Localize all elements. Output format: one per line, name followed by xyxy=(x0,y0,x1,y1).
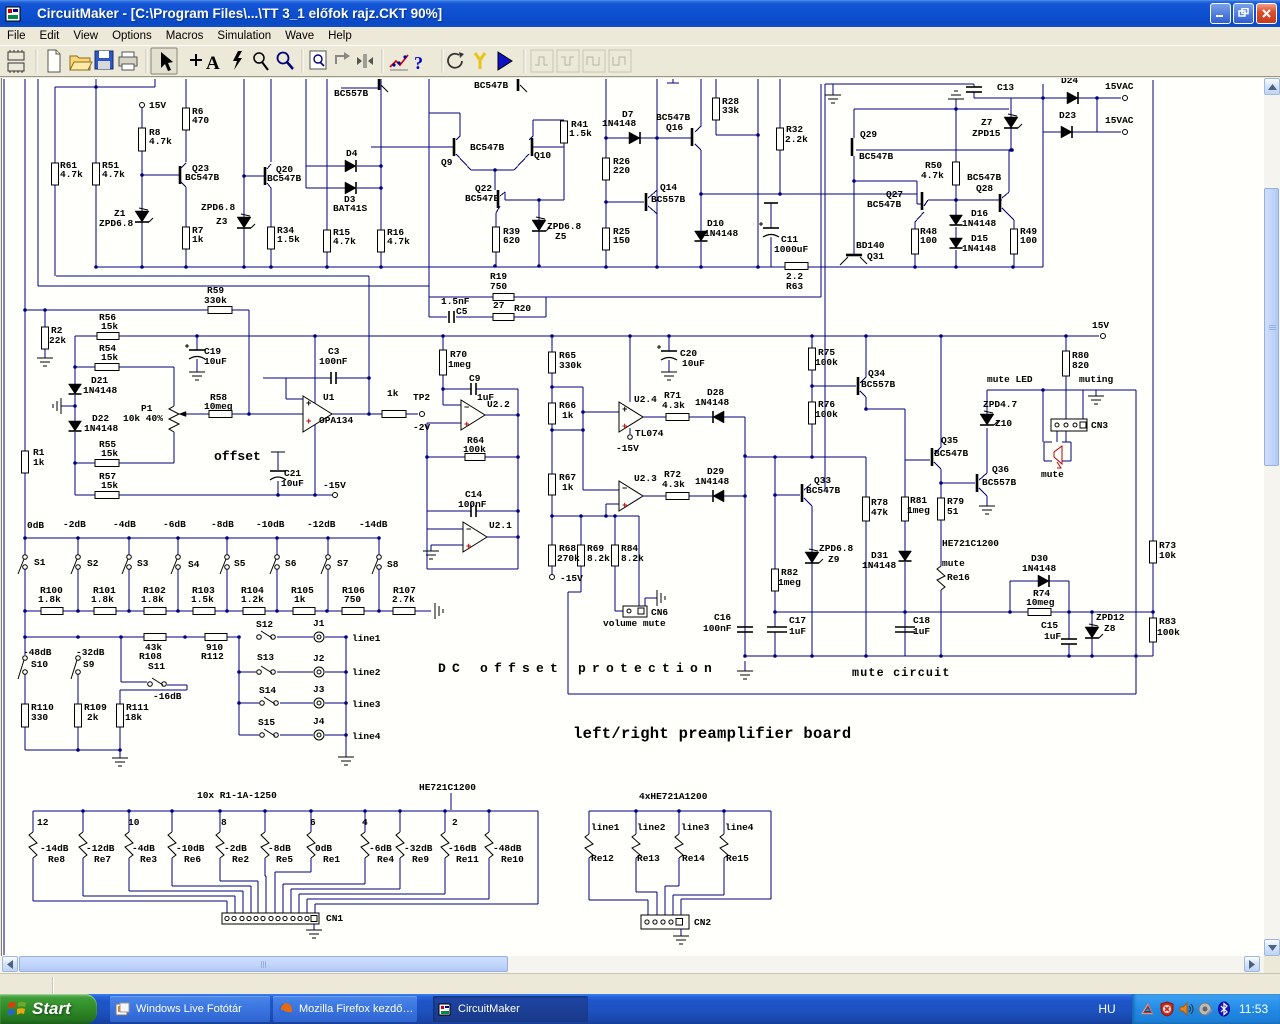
resistor R56 xyxy=(97,333,119,340)
svg-text:R63: R63 xyxy=(786,281,803,292)
svg-text:1k: 1k xyxy=(562,482,574,493)
svg-text:-12dB: -12dB xyxy=(307,519,336,530)
Q16 emitter xyxy=(695,144,701,150)
resistor R67 xyxy=(549,474,556,495)
S2 top xyxy=(77,538,79,555)
op-amp U2.2 xyxy=(461,400,485,430)
switch S2 xyxy=(76,555,81,560)
svg-text:line3: line3 xyxy=(681,822,710,833)
junction xyxy=(344,635,348,639)
wire xyxy=(655,190,657,192)
vertical bus x24 xyxy=(24,79,26,451)
R61 column xyxy=(54,87,56,163)
wire xyxy=(986,496,988,506)
svg-text:R20: R20 xyxy=(514,303,531,314)
junction xyxy=(613,514,617,518)
junction xyxy=(1134,654,1138,658)
svg-text:mute: mute xyxy=(1041,469,1064,480)
S1 bottom xyxy=(24,569,26,611)
S7 top xyxy=(327,538,329,555)
resistor R65 xyxy=(549,352,556,373)
wire xyxy=(257,881,259,913)
wire xyxy=(916,194,918,204)
wire xyxy=(494,170,496,190)
x xyxy=(904,457,906,460)
svg-text:S13: S13 xyxy=(257,652,274,663)
wire xyxy=(505,199,564,201)
svg-text:1.5k: 1.5k xyxy=(569,128,592,139)
wire xyxy=(695,126,701,132)
wire xyxy=(307,898,489,900)
resistor R51 xyxy=(93,163,100,185)
S11 left xyxy=(120,637,122,682)
junction xyxy=(903,610,907,614)
svg-text:15k: 15k xyxy=(101,448,118,459)
wire xyxy=(226,901,228,913)
svg-text:4.7k: 4.7k xyxy=(921,170,944,181)
svg-text:C13: C13 xyxy=(997,82,1014,93)
diode D31 xyxy=(899,551,912,561)
ground U2.1 xyxy=(423,550,439,552)
bank1 right edge xyxy=(537,811,539,904)
svg-text:1N4148: 1N4148 xyxy=(862,560,897,571)
S4 top xyxy=(177,538,179,555)
junction xyxy=(864,654,868,658)
svg-text:ZPD12: ZPD12 xyxy=(1096,612,1125,623)
switch S8 xyxy=(377,555,382,560)
svg-text:S10: S10 xyxy=(31,659,48,670)
wire xyxy=(979,473,987,480)
svg-text:S9: S9 xyxy=(83,659,95,670)
print xyxy=(119,52,137,70)
Z3 column xyxy=(243,79,245,217)
svg-text:-32dB: -32dB xyxy=(404,843,433,854)
svg-text:C16: C16 xyxy=(714,612,731,623)
svg-text:-4dB: -4dB xyxy=(113,519,136,530)
resistor R68 xyxy=(549,545,556,566)
new xyxy=(48,50,60,72)
connector CN2 xyxy=(641,915,689,929)
junction xyxy=(237,670,241,674)
resistor R82 xyxy=(772,569,779,591)
resistor 1k xyxy=(382,411,406,418)
S5 top xyxy=(226,538,228,555)
svg-text:1k: 1k xyxy=(387,388,399,399)
U2.1 output xyxy=(487,536,518,538)
junction xyxy=(443,809,447,813)
wire xyxy=(267,183,271,188)
svg-text:A: A xyxy=(206,53,220,74)
svg-text:0dB: 0dB xyxy=(27,520,44,531)
wire xyxy=(986,428,988,473)
resistor R104 xyxy=(243,608,265,615)
resistor R106 xyxy=(342,608,364,615)
transistor Q36 xyxy=(976,474,979,492)
arrow tool (pressed) xyxy=(151,48,177,74)
resistor R71 xyxy=(666,414,689,421)
svg-text:ZPD6.8: ZPD6.8 xyxy=(819,543,854,554)
mute LED speaker xyxy=(1044,442,1071,461)
wire xyxy=(1013,220,1015,229)
svg-text:51: 51 xyxy=(947,506,959,517)
svg-text:BC547B: BC547B xyxy=(859,151,894,162)
connector J3 xyxy=(314,698,324,708)
zener Z8 xyxy=(1085,627,1099,638)
svg-text:-6dB: -6dB xyxy=(163,519,186,530)
svg-text:1N4148: 1N4148 xyxy=(602,118,637,129)
wire xyxy=(1043,97,1067,99)
wire xyxy=(128,858,130,891)
svg-text:1000uF: 1000uF xyxy=(774,244,809,255)
Q27 emitter xyxy=(915,212,924,222)
wire xyxy=(33,900,227,902)
relay Re11 wire xyxy=(444,811,446,832)
zener Z10 xyxy=(980,414,994,425)
wire xyxy=(326,252,328,267)
ground xyxy=(744,661,746,671)
svg-text:1uF: 1uF xyxy=(789,626,806,637)
resistor R7 xyxy=(183,227,190,249)
wire xyxy=(606,137,629,139)
svg-text:470: 470 xyxy=(192,115,209,126)
wire xyxy=(55,86,155,88)
wire xyxy=(495,252,497,266)
svg-text:1N4148: 1N4148 xyxy=(695,397,730,408)
wire xyxy=(429,296,493,298)
menu bar xyxy=(0,27,1280,45)
svg-text:Re1: Re1 xyxy=(323,854,340,865)
R82 column xyxy=(774,457,776,569)
wire xyxy=(82,858,84,896)
wire xyxy=(655,212,657,214)
R64 row xyxy=(427,456,465,458)
C3 row xyxy=(263,377,331,379)
wire y181 xyxy=(854,180,917,182)
ground xyxy=(338,756,354,758)
svg-text:-48dB: -48dB xyxy=(493,843,522,854)
svg-text:1meg: 1meg xyxy=(778,577,801,588)
resistor R66 xyxy=(549,403,556,424)
junction xyxy=(667,334,671,338)
junction xyxy=(581,410,585,414)
wire xyxy=(1082,390,1084,419)
junction xyxy=(493,264,497,268)
wire xyxy=(1068,581,1070,612)
svg-text:-16dB: -16dB xyxy=(153,691,182,702)
svg-text:Q29: Q29 xyxy=(860,129,877,140)
svg-text:1N4148: 1N4148 xyxy=(1022,563,1057,574)
resistor R111 xyxy=(117,704,124,727)
relay Re4 xyxy=(361,832,369,858)
wire xyxy=(917,203,921,205)
svg-text:12: 12 xyxy=(37,817,49,828)
junction xyxy=(939,481,943,485)
wire xyxy=(265,875,266,877)
svg-text:BC557B: BC557B xyxy=(861,379,896,390)
svg-text:+: + xyxy=(306,417,311,427)
ground xyxy=(37,357,53,359)
diode D4 xyxy=(345,160,356,172)
junction xyxy=(550,514,554,518)
diode D3 xyxy=(345,182,356,194)
Q34 base xyxy=(812,385,856,387)
relay Re5 wire xyxy=(264,811,266,832)
wire xyxy=(357,187,381,189)
relay xyxy=(720,834,728,858)
reset xyxy=(448,52,464,68)
R84 column xyxy=(614,516,616,545)
wire xyxy=(119,366,174,368)
wire xyxy=(770,203,772,228)
terminal 15V xyxy=(140,103,145,108)
svg-text:CN6: CN6 xyxy=(651,607,668,618)
svg-text:820: 820 xyxy=(1072,360,1089,371)
wire xyxy=(74,432,76,495)
relay Re9 wire xyxy=(399,811,401,832)
junction xyxy=(76,748,80,752)
R59 row xyxy=(25,309,208,311)
svg-text:line1: line1 xyxy=(591,822,620,833)
wire y194 xyxy=(701,193,917,195)
junction xyxy=(263,809,267,813)
wire xyxy=(196,359,198,372)
R70 column xyxy=(442,336,444,350)
svg-text:-4dB: -4dB xyxy=(132,843,155,854)
wire xyxy=(250,886,252,913)
wire y409 xyxy=(866,408,905,410)
wire xyxy=(142,174,179,176)
svg-text:S7: S7 xyxy=(337,558,349,569)
Y tool xyxy=(475,53,485,69)
capacitor C17 xyxy=(767,626,787,628)
resistor R49 xyxy=(1011,229,1018,254)
bus y750 xyxy=(25,749,120,751)
wire xyxy=(248,310,250,414)
vertical scrollbar xyxy=(1264,78,1280,956)
svg-text:muting: muting xyxy=(1079,374,1114,385)
svg-text:+: + xyxy=(622,405,627,415)
svg-text:-32dB: -32dB xyxy=(76,647,105,658)
wire xyxy=(568,591,581,593)
svg-text:-16dB: -16dB xyxy=(448,843,477,854)
diode D23 xyxy=(1061,126,1072,138)
junction xyxy=(864,334,868,338)
wire xyxy=(914,254,916,267)
vertical x757 xyxy=(757,79,759,267)
junction xyxy=(1011,265,1015,269)
capacitor C20 xyxy=(661,350,677,352)
wire xyxy=(77,727,79,750)
junction xyxy=(140,265,144,269)
svg-text:4xHE721A1200: 4xHE721A1200 xyxy=(639,791,708,802)
wire xyxy=(314,904,316,913)
svg-text:4.7k: 4.7k xyxy=(333,236,356,247)
Q28 emitter xyxy=(1002,208,1014,220)
junction xyxy=(550,334,554,338)
wire xyxy=(427,422,461,424)
resistor R81 xyxy=(902,497,909,521)
svg-text:U1: U1 xyxy=(323,392,335,403)
svg-text:8.2k: 8.2k xyxy=(587,553,610,564)
transistor Q35 xyxy=(931,448,934,466)
wire xyxy=(239,734,259,736)
svg-text:CN3: CN3 xyxy=(1091,420,1108,431)
wire xyxy=(24,473,26,554)
R28 column xyxy=(715,79,717,98)
wire xyxy=(724,416,745,418)
wire xyxy=(538,231,540,266)
wire xyxy=(476,510,518,512)
ground CN1 xyxy=(313,924,315,930)
connector J1 xyxy=(314,632,324,642)
junction xyxy=(367,412,371,416)
vertical x820 xyxy=(820,84,822,297)
transistor Q20 xyxy=(264,167,267,185)
svg-text:27: 27 xyxy=(493,300,505,311)
wire xyxy=(185,130,187,162)
wire xyxy=(678,858,680,886)
svg-text:BC547B: BC547B xyxy=(806,485,841,496)
transistor Q23 xyxy=(179,166,182,184)
switch S13 xyxy=(257,670,262,675)
svg-text:-8dB: -8dB xyxy=(268,843,291,854)
svg-text:15V: 15V xyxy=(1092,320,1109,331)
diode D7 xyxy=(629,132,640,144)
svg-text:8: 8 xyxy=(221,817,227,828)
svg-text:Re12: Re12 xyxy=(591,853,614,864)
wire xyxy=(119,462,174,464)
svg-text:line4: line4 xyxy=(725,822,754,833)
bus y516 xyxy=(552,515,639,517)
wire xyxy=(615,610,623,612)
ground R107 xyxy=(434,603,436,619)
Q33 emitter xyxy=(804,498,812,506)
relay Re7 wire xyxy=(82,811,84,832)
svg-text:15V: 15V xyxy=(149,100,166,111)
wire xyxy=(811,563,813,656)
zoom xyxy=(278,53,294,70)
wire xyxy=(459,113,461,136)
resistor R109 xyxy=(75,704,82,727)
junction xyxy=(743,454,747,458)
relay xyxy=(585,834,593,858)
diode D21 xyxy=(69,384,82,394)
wire xyxy=(325,636,346,638)
bank1 bus xyxy=(33,810,538,812)
wire xyxy=(645,597,657,599)
svg-text:330: 330 xyxy=(31,712,48,723)
wire xyxy=(32,858,34,901)
junction xyxy=(242,174,246,178)
resistor R57 xyxy=(95,492,119,499)
ground C20 xyxy=(661,371,677,373)
wire xyxy=(811,424,813,457)
svg-text:Z10: Z10 xyxy=(995,418,1012,429)
svg-text:Q34: Q34 xyxy=(868,368,885,379)
relay Re1 xyxy=(307,832,315,858)
wire y276 xyxy=(56,275,369,277)
terminal 15VAC xyxy=(1123,130,1128,135)
svg-text:-15V: -15V xyxy=(323,480,346,491)
wire xyxy=(239,702,259,704)
resistor R16 xyxy=(378,230,385,252)
switch S4 xyxy=(176,555,181,560)
svg-text:TP2: TP2 xyxy=(413,392,430,403)
resistor R6 xyxy=(183,108,190,130)
svg-text:mute: mute xyxy=(942,558,965,569)
svg-text:CN2: CN2 xyxy=(694,917,711,928)
S2 bottom xyxy=(77,569,79,611)
switch S6 xyxy=(275,555,280,560)
junction xyxy=(81,809,85,813)
svg-text:CN1: CN1 xyxy=(326,913,343,924)
R75 column xyxy=(811,336,813,348)
junction xyxy=(743,494,747,498)
svg-text:Re4: Re4 xyxy=(377,854,394,865)
resistor R101 xyxy=(94,608,116,615)
switch S1 xyxy=(23,555,28,560)
wire xyxy=(770,237,772,267)
junction xyxy=(218,809,222,813)
svg-text:1N4148: 1N4148 xyxy=(84,423,119,434)
resistor R19 xyxy=(493,294,514,301)
resistor R1 xyxy=(22,451,29,473)
svg-text:volume mute: volume mute xyxy=(603,618,666,629)
wire xyxy=(934,447,941,454)
wire xyxy=(1056,431,1058,442)
junction xyxy=(954,265,958,269)
junction xyxy=(76,635,80,639)
svg-text:33k: 33k xyxy=(722,105,739,116)
wire xyxy=(551,373,553,403)
svg-text:4.3k: 4.3k xyxy=(662,479,685,490)
R69 column xyxy=(580,516,582,545)
junction xyxy=(550,385,554,389)
connector CN6 xyxy=(623,606,647,617)
capacitor C21 xyxy=(271,451,285,453)
svg-text:620: 620 xyxy=(503,235,520,246)
svg-text:4.3k: 4.3k xyxy=(662,400,685,411)
wire xyxy=(774,591,776,627)
ground CN1 xyxy=(306,929,322,931)
svg-text:ZPD6.8: ZPD6.8 xyxy=(99,218,134,229)
wire xyxy=(456,136,460,140)
junction xyxy=(326,536,330,540)
svg-text:BC547B: BC547B xyxy=(267,173,302,184)
wire xyxy=(264,858,266,876)
resistor R15 xyxy=(324,230,331,252)
wire xyxy=(285,378,287,399)
C15 column xyxy=(1068,612,1070,639)
bus y637 xyxy=(25,636,239,638)
wire xyxy=(83,895,235,897)
ground C16 xyxy=(737,670,753,672)
wire xyxy=(431,544,463,546)
svg-text:+: + xyxy=(466,542,471,552)
svg-text:100k: 100k xyxy=(1157,627,1180,638)
wire xyxy=(643,495,666,497)
junction xyxy=(363,809,367,813)
junction xyxy=(23,609,27,613)
svg-text:Re7: Re7 xyxy=(94,854,111,865)
svg-text:line4: line4 xyxy=(352,731,381,742)
svg-text:-15V: -15V xyxy=(616,443,639,454)
resistor R74 xyxy=(1028,609,1051,616)
C14 row xyxy=(427,510,471,512)
wire xyxy=(429,112,460,114)
junction xyxy=(487,809,491,813)
Q36 emitter xyxy=(979,488,987,496)
